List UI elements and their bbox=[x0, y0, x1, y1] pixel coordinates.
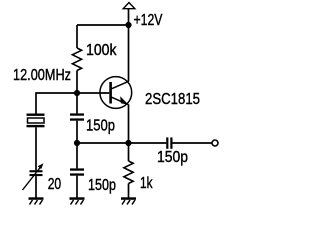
wire C3 to output terminal bbox=[173, 142, 212, 144]
wire collector rail bbox=[128, 25, 130, 82]
wire output rail bbox=[77, 142, 166, 144]
wire C1 to mid node bbox=[76, 121, 78, 143]
label +12V bbox=[134, 12, 164, 29]
label 2SC1815 bbox=[145, 91, 200, 108]
label 1k bbox=[140, 175, 153, 192]
label 20 bbox=[48, 176, 62, 193]
output terminal bbox=[212, 140, 218, 146]
wire top rail R1 to V+ bbox=[77, 24, 129, 26]
crystal X1 12.00MHz bbox=[27, 114, 45, 128]
wire emitter node to R2 bbox=[128, 143, 130, 161]
svg-text:2SC1815: 2SC1815 bbox=[145, 91, 200, 108]
label 150p C3 bbox=[157, 149, 188, 166]
wire base lead bbox=[36, 92, 109, 94]
wire emitter rail bbox=[128, 105, 130, 144]
svg-text:12.00MHz: 12.00MHz bbox=[13, 67, 71, 84]
wire left rail corner down to crystal bbox=[35, 92, 37, 114]
svg-text:20: 20 bbox=[48, 176, 62, 193]
svg-text:1k: 1k bbox=[140, 175, 153, 192]
variable capacitor VC1 20p bbox=[23, 163, 44, 190]
power symbol +12V arrow bbox=[123, 3, 135, 9]
capacitor C2 150p bbox=[70, 168, 84, 175]
transistor Q1 2SC1815 bbox=[100, 77, 132, 109]
label 100k bbox=[86, 42, 117, 59]
svg-text:150p: 150p bbox=[86, 118, 115, 135]
svg-text:+12V: +12V bbox=[134, 12, 164, 29]
ground middle bbox=[70, 197, 85, 204]
svg-text:150p: 150p bbox=[88, 177, 116, 194]
node base junction dot bbox=[74, 90, 80, 96]
label 150p C2 bbox=[88, 177, 116, 194]
svg-text:150p: 150p bbox=[157, 149, 188, 166]
wire V+ down to R1 top bbox=[76, 25, 78, 48]
ground left bbox=[29, 197, 44, 204]
wire R1 bottom to base node bbox=[76, 71, 78, 94]
resistor R1 100k bbox=[72, 48, 81, 71]
node V+ junction dot bbox=[125, 22, 131, 28]
label 150p C1 bbox=[86, 118, 115, 135]
wire crystal to varcap bbox=[35, 127, 37, 170]
node mid junction dot bbox=[74, 140, 80, 146]
svg-text:100k: 100k bbox=[86, 42, 117, 59]
label 12.00MHz bbox=[13, 67, 71, 84]
capacitor C3 150p output bbox=[166, 137, 172, 148]
wire R2 to ground bbox=[128, 184, 130, 198]
wire arrow to V+ junction bbox=[128, 9, 130, 25]
node emitter junction dot bbox=[125, 140, 131, 146]
ground right bbox=[121, 197, 136, 204]
wire C2 to ground bbox=[76, 176, 78, 198]
capacitor C1 150p bbox=[70, 113, 84, 120]
resistor R2 1k bbox=[124, 161, 133, 184]
wire mid node to C2 bbox=[76, 143, 78, 168]
wire base node down to C1 bbox=[76, 93, 78, 113]
wire varcap to ground bbox=[35, 176, 37, 197]
